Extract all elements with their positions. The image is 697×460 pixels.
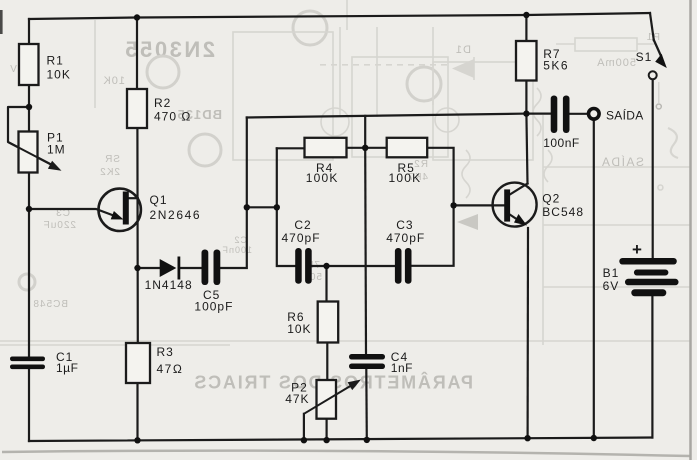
svg-text:SAÍDA: SAÍDA — [606, 107, 644, 122]
svg-text:C2: C2 — [233, 235, 247, 245]
svg-text:C3: C3 — [396, 218, 413, 232]
svg-text:100nF: 100nF — [543, 136, 580, 150]
svg-text:1nF: 1nF — [391, 361, 413, 375]
svg-text:10K: 10K — [287, 322, 311, 336]
svg-text:R2: R2 — [154, 96, 171, 110]
svg-text:C2: C2 — [294, 218, 311, 232]
svg-text:470 Ω: 470 Ω — [154, 110, 191, 124]
svg-text:470pF: 470pF — [386, 231, 425, 245]
svg-text:2K2: 2K2 — [99, 167, 120, 178]
svg-text:+: + — [632, 240, 643, 259]
svg-text:6V: 6V — [603, 279, 620, 293]
svg-text:R2: R2 — [413, 159, 428, 170]
svg-text:BC548: BC548 — [32, 299, 68, 310]
svg-text:R1: R1 — [47, 54, 64, 68]
svg-text:100pF: 100pF — [194, 299, 233, 313]
svg-text:100K: 100K — [306, 171, 339, 185]
svg-text:220uF: 220uF — [43, 220, 76, 231]
svg-text:2N2646: 2N2646 — [150, 208, 202, 222]
svg-text:1M: 1M — [47, 143, 66, 157]
svg-text:5K6: 5K6 — [543, 59, 569, 73]
svg-text:470pF: 470pF — [282, 231, 321, 245]
svg-text:1µF: 1µF — [56, 361, 78, 375]
svg-text:SR: SR — [104, 154, 120, 165]
svg-text:100K: 100K — [389, 171, 422, 185]
svg-text:Q1: Q1 — [150, 193, 168, 207]
svg-text:500mA: 500mA — [596, 57, 636, 69]
svg-text:47Ω: 47Ω — [157, 362, 184, 376]
svg-text:S1: S1 — [636, 50, 653, 64]
svg-text:Q2: Q2 — [542, 192, 560, 206]
svg-text:10K: 10K — [47, 67, 71, 81]
svg-text:10K: 10K — [102, 75, 125, 87]
svg-text:B1: B1 — [603, 266, 620, 280]
svg-text:1N4148: 1N4148 — [145, 278, 193, 292]
svg-text:BC548: BC548 — [542, 205, 584, 219]
svg-text:47K: 47K — [285, 392, 309, 406]
svg-text:R3: R3 — [157, 345, 174, 359]
svg-text:D1: D1 — [455, 44, 471, 56]
